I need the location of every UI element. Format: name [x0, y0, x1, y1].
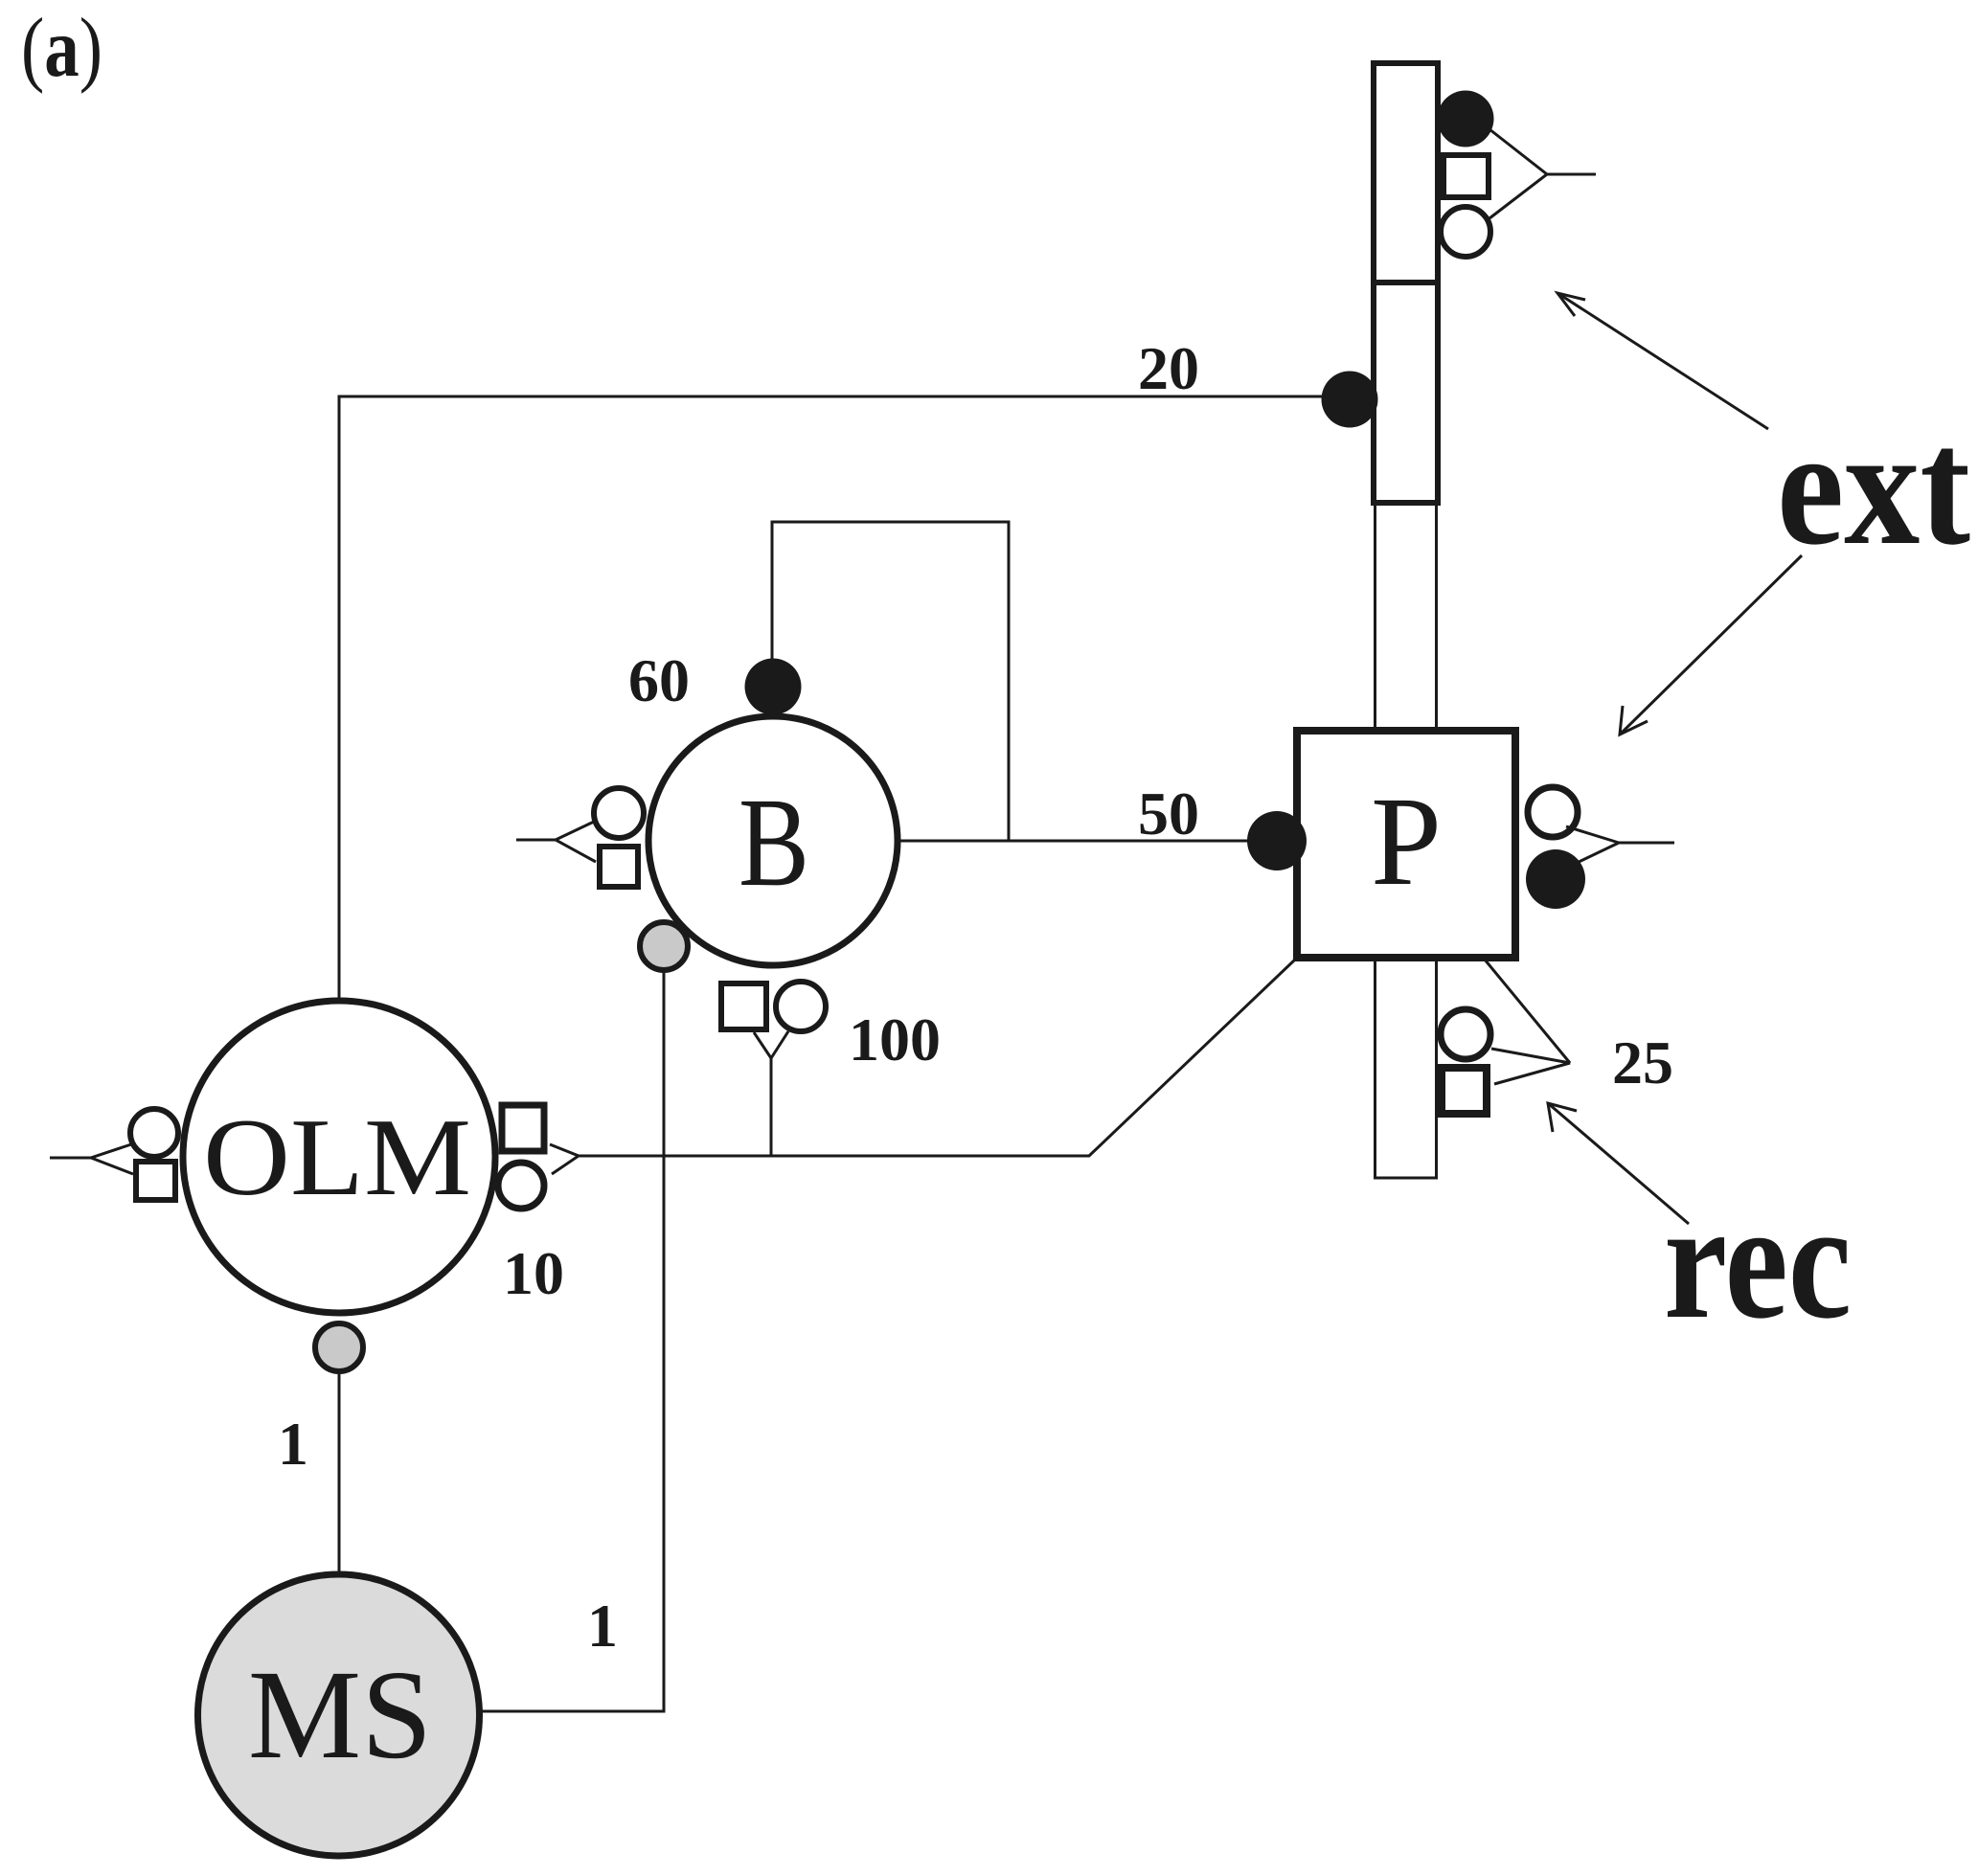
- svg-text:MS: MS: [248, 1643, 432, 1785]
- svg-text:ext: ext: [1777, 394, 1970, 579]
- svg-text:OLM: OLM: [203, 1096, 471, 1219]
- svg-text:25: 25: [1612, 1028, 1673, 1096]
- svg-text:P: P: [1371, 770, 1442, 912]
- svg-text:50: 50: [1138, 780, 1199, 848]
- svg-text:rec: rec: [1664, 1167, 1852, 1353]
- svg-text:10: 10: [503, 1239, 564, 1307]
- svg-text:(a): (a): [21, 2, 102, 95]
- svg-text:20: 20: [1138, 334, 1199, 402]
- svg-text:1: 1: [278, 1410, 308, 1478]
- svg-text:B: B: [739, 771, 809, 913]
- svg-text:1: 1: [587, 1592, 618, 1660]
- svg-text:100: 100: [849, 1006, 941, 1074]
- svg-text:60: 60: [628, 646, 690, 714]
